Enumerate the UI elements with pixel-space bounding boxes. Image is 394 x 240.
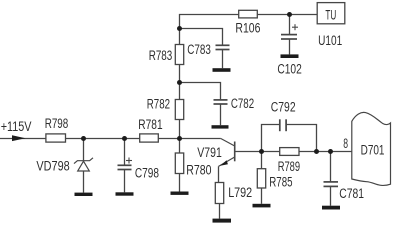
wire R789 to D701 — [299, 151, 352, 153]
ground under C783 — [213, 68, 231, 72]
wire VD798 to ground — [83, 171, 85, 193]
wire L792 to ground — [219, 204, 221, 219]
svg-text:R782: R782 — [147, 97, 170, 112]
node base-left dot — [259, 149, 264, 154]
svg-text:C783: C783 — [187, 42, 211, 57]
svg-text:VD798: VD798 — [36, 158, 69, 173]
resistor R106 — [239, 10, 258, 18]
node top1 dot — [177, 26, 182, 31]
wire C781 drop — [330, 152, 332, 182]
capacitor C783 — [216, 45, 230, 49]
ground under C781 — [322, 206, 340, 210]
wire vertical spine top corner to R783 — [180, 15, 239, 45]
wire C798 drop — [124, 139, 126, 165]
svg-text:C792: C792 — [271, 99, 296, 114]
svg-text:C102: C102 — [277, 62, 301, 77]
wire C798 to ground — [124, 170, 126, 193]
svg-text:R106: R106 — [235, 21, 260, 36]
wire C792 loop — [262, 125, 280, 152]
node C798 dot — [122, 136, 127, 141]
svg-text:R783: R783 — [149, 48, 173, 63]
wire C782 to ground — [220, 104, 222, 125]
capacitor C781 — [324, 182, 339, 187]
node R106/C102 dot — [287, 12, 292, 17]
wire emitter vertical — [218, 166, 220, 182]
wire C781 to ground — [330, 187, 332, 206]
zener diode VD798 — [74, 158, 93, 171]
wire C102 to ground — [289, 39, 291, 54]
transistor V791 — [219, 139, 235, 167]
block D701 — [352, 112, 391, 185]
resistor R780 — [175, 153, 183, 174]
wire base lead — [235, 151, 280, 153]
svg-text:D701: D701 — [361, 143, 385, 158]
ground under C782 — [212, 125, 229, 128]
svg-text:R789: R789 — [278, 159, 300, 174]
capacitor C798 — [118, 165, 132, 169]
wire C782 branch — [180, 83, 221, 100]
wire R785 to ground — [261, 188, 263, 204]
ground under L792 — [213, 219, 232, 223]
wire R106 to TU — [258, 14, 318, 16]
wire rail R798 to R781 — [66, 138, 140, 140]
resistor R781 — [140, 134, 159, 142]
node top2 dot — [177, 80, 182, 85]
inductor L792 — [215, 183, 223, 204]
node B dot — [177, 136, 182, 141]
wire R785 drop — [261, 152, 263, 169]
capacitor C792 — [280, 119, 286, 131]
resistor R782 — [175, 100, 183, 120]
ground under VD798 — [75, 193, 93, 196]
wire C792 right — [286, 125, 316, 152]
wire C783 to ground — [222, 49, 224, 68]
svg-text:C781: C781 — [339, 186, 364, 201]
resistor R783 — [175, 45, 183, 65]
node base-right dot — [314, 149, 319, 154]
wire R780 to ground — [179, 174, 181, 193]
capacitor C102 — [281, 35, 297, 39]
svg-text:R798: R798 — [45, 116, 69, 131]
wire R782 to node B — [179, 120, 181, 139]
resistor R789 — [280, 148, 299, 156]
svg-text:TU: TU — [325, 6, 336, 22]
node C781 dot — [328, 149, 333, 154]
capacitor C782 — [214, 100, 228, 104]
wire VD798 drop — [83, 139, 85, 161]
resistor R785 — [257, 169, 265, 188]
ground under C102 — [281, 54, 299, 58]
ground under R780 — [171, 192, 189, 195]
svg-text:R780: R780 — [186, 163, 211, 178]
wire main rail — [0, 138, 46, 140]
svg-text:R781: R781 — [138, 117, 162, 132]
wire rail R781 to collector corner — [159, 138, 221, 140]
wire node B to R780 — [179, 139, 181, 154]
wire R783 to R782 — [179, 65, 181, 100]
node A dot — [81, 136, 86, 141]
svg-text:V791: V791 — [197, 145, 222, 160]
ground under C798 — [116, 192, 134, 195]
svg-text:+115V: +115V — [1, 119, 32, 134]
wire C783 branch — [180, 29, 223, 45]
svg-text:R785: R785 — [269, 174, 292, 189]
emitter arrowhead — [220, 160, 228, 166]
tuner block TU U101 — [317, 3, 345, 24]
ground under R785 — [253, 204, 271, 208]
arrow feed +115V — [12, 135, 26, 141]
svg-text:8: 8 — [343, 136, 348, 151]
resistor R798 — [46, 134, 66, 142]
wire C102 drop — [289, 15, 291, 35]
svg-text:C798: C798 — [135, 165, 159, 180]
svg-text:L792: L792 — [228, 185, 252, 200]
svg-text:U101: U101 — [318, 33, 342, 48]
svg-text:C782: C782 — [231, 96, 254, 111]
